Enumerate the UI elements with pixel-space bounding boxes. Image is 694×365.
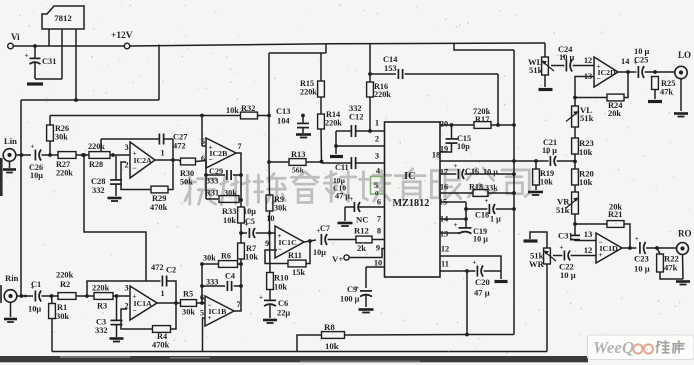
wire pin11: [440, 270, 475, 272]
svg-text:14: 14: [621, 57, 630, 66]
wire IC2D output: [618, 71, 636, 73]
wire C27 left drop: [100, 139, 102, 152]
svg-text:10p: 10p: [457, 142, 470, 151]
wire C20 to ground: [500, 271, 502, 279]
svg-text:3: 3: [375, 152, 379, 161]
wire +12V rail main: [130, 43, 545, 46]
wire R30 to IC2B pin6: [196, 161, 207, 162]
svg-text:R33: R33: [222, 207, 236, 216]
svg-text:47 μ: 47 μ: [335, 192, 350, 201]
wire to IC1D pin13: [575, 239, 596, 242]
svg-text:20: 20: [440, 120, 448, 129]
svg-text:3: 3: [124, 284, 128, 293]
svg-text:333: 333: [206, 177, 218, 186]
svg-text:NC: NC: [356, 215, 368, 225]
resistor R16 220k: [367, 82, 374, 97]
scan artifact bottom band: [0, 356, 588, 362]
svg-text:16: 16: [440, 183, 448, 192]
svg-text:+: +: [635, 235, 639, 243]
op-amp IC1D: [596, 233, 622, 263]
capacitor C7 10u: [320, 234, 322, 245]
svg-text:6: 6: [201, 154, 205, 163]
wire into R30: [179, 160, 181, 162]
svg-text:C14: C14: [383, 55, 398, 64]
svg-text:13: 13: [584, 229, 593, 239]
svg-text:30k: 30k: [224, 189, 237, 198]
wire C31 bottom lead: [34, 63, 36, 79]
ground at C20: [495, 280, 508, 283]
wire IC1A output: [157, 302, 181, 304]
svg-text:12: 12: [584, 245, 593, 255]
svg-text:IC1A: IC1A: [134, 299, 153, 308]
wire C18 to x514: [496, 208, 514, 210]
svg-text:C31: C31: [558, 231, 573, 241]
potentiometer WR 51k: [544, 248, 551, 264]
wire x269 from y53 down: [268, 53, 270, 116]
capacitor C25 10u output coupling: [637, 66, 639, 78]
svg-text:472: 472: [173, 142, 186, 151]
svg-text:10: 10: [266, 214, 274, 223]
svg-text:LO: LO: [678, 50, 691, 60]
svg-text:10μ: 10μ: [313, 248, 326, 257]
capacitor C2 472 feedback: [87, 281, 161, 296]
wire C11 to pin3: [356, 162, 385, 164]
wire C12 left: [336, 130, 351, 132]
svg-text:+: +: [454, 221, 458, 229]
svg-text:R31: R31: [205, 189, 219, 198]
svg-text:+: +: [30, 143, 34, 151]
resistor R7 10k: [238, 243, 245, 259]
wire rail tap x326: [325, 44, 327, 53]
wire Rin signal: [17, 295, 33, 297]
resistor R9 30k bias: [266, 195, 273, 211]
wire ground bus y79: [35, 78, 62, 80]
wire R18 to x514: [488, 192, 514, 194]
wire IC2D pin13: [575, 77, 594, 98]
wire C2 to output node: [167, 281, 176, 303]
svg-text:470k: 470k: [150, 203, 168, 212]
wire C14 to right column: [405, 73, 498, 75]
svg-text:R29: R29: [152, 194, 166, 203]
svg-text:R5: R5: [183, 290, 193, 299]
svg-text:C13: C13: [276, 107, 290, 116]
potentiometer WL 51k: [542, 57, 549, 75]
wire C19 to pin13 wire: [458, 231, 460, 234]
wire C27 to output node: [172, 139, 174, 160]
svg-text:RO: RO: [678, 229, 692, 239]
wire C24 to IC2D pin12: [573, 65, 594, 67]
wire R22 bottom: [660, 272, 683, 279]
resistor R23 10k: [572, 138, 579, 154]
svg-text:10μ: 10μ: [28, 305, 41, 314]
ground under C13: [296, 133, 311, 136]
svg-text:7: 7: [377, 215, 381, 224]
ground under RO: [676, 280, 690, 283]
wire R2 to R3: [76, 295, 94, 297]
wire C27 right: [164, 138, 173, 140]
resistor R10 10k bias: [267, 273, 274, 290]
wire stage link x84: [84, 155, 146, 281]
svg-text:56k: 56k: [292, 166, 305, 175]
capacitor C18 1u: [466, 208, 487, 210]
wire R15 to R14: [320, 97, 322, 114]
svg-text:47k: 47k: [660, 88, 673, 97]
svg-text:472: 472: [151, 263, 164, 272]
svg-text:10 μ: 10 μ: [473, 235, 488, 244]
svg-text:51k: 51k: [556, 205, 570, 215]
wire C15 to pin19: [440, 143, 452, 152]
wire IC1B pin5 to rail: [203, 318, 206, 352]
svg-text:10: 10: [374, 259, 382, 268]
svg-text:10k: 10k: [579, 147, 593, 157]
svg-text:153: 153: [384, 64, 397, 73]
wire C5 to IC1C: [256, 232, 269, 234]
wire 7812 input lead: [48, 29, 50, 46]
svg-text:10μ: 10μ: [243, 207, 256, 216]
resistor R2 220k: [58, 293, 76, 300]
ground WR top: [530, 232, 547, 248]
node y115 line: [50, 115, 240, 117]
ground under WL: [539, 88, 553, 91]
wire R25 to ground: [654, 90, 656, 100]
svg-text:10 μ: 10 μ: [560, 270, 576, 280]
wire V+ to pin9: [349, 249, 384, 258]
svg-text:R17: R17: [475, 115, 489, 124]
svg-text:C25: C25: [634, 56, 648, 65]
wire R14 to R13 node: [320, 129, 323, 163]
svg-text:+: +: [472, 259, 476, 267]
wire into IC1C plus: [270, 232, 276, 234]
wire R17 to x514: [491, 124, 514, 126]
svg-text:Lin: Lin: [4, 136, 17, 146]
svg-text:C12: C12: [349, 113, 363, 122]
svg-text:10 μ: 10 μ: [542, 146, 557, 155]
wire bottom rail: [52, 351, 547, 353]
capacitor C16 10u: [440, 173, 456, 175]
wire IC1D output: [622, 247, 636, 249]
svg-text:R11: R11: [288, 251, 302, 260]
ground under C6: [263, 319, 277, 322]
wire node to R10: [269, 233, 272, 273]
capacitor C31 pin13 node: [574, 224, 576, 235]
wire R7 top lead: [240, 233, 242, 243]
resistor R15 220k: [318, 81, 325, 97]
svg-text:R28: R28: [89, 160, 103, 169]
svg-text:R1: R1: [57, 303, 67, 312]
wire pin12: [440, 256, 501, 271]
wire pin2: [336, 145, 385, 147]
svg-text:30k: 30k: [182, 308, 195, 317]
ground under C3: [110, 337, 124, 340]
svg-text:WeeQ: WeeQ: [593, 338, 634, 357]
ground under R19: [528, 191, 543, 194]
ground under Lin: [3, 168, 16, 171]
svg-text:13: 13: [440, 230, 448, 239]
wire pin20: [440, 124, 474, 126]
wire pin18 bus: [440, 160, 549, 162]
capacitor C6 22u: [269, 290, 271, 300]
svg-text:R3: R3: [97, 302, 107, 311]
svg-text:0: 0: [375, 190, 378, 197]
wire R5 to IC1B: [197, 302, 206, 304]
wire 7812 ground lead: [61, 29, 63, 79]
wire R9 bottom lead: [269, 211, 271, 233]
wire R1 to bottom rail: [51, 319, 53, 352]
svg-text:470k: 470k: [152, 341, 170, 350]
svg-text:22μ: 22μ: [277, 309, 290, 318]
svg-text:+: +: [453, 162, 457, 170]
wire y53 bias line: [269, 52, 326, 54]
ground under Rin: [4, 318, 17, 321]
svg-text:333: 333: [206, 278, 218, 287]
svg-text:10k: 10k: [226, 106, 239, 115]
resistor R22 47k: [657, 254, 664, 272]
op-amp IC1A: [130, 286, 157, 320]
wire R7 bottom lead: [240, 259, 242, 264]
resistor R30 50k: [181, 158, 196, 165]
wire LO to ground: [680, 79, 682, 111]
svg-text:5: 5: [374, 181, 378, 190]
wire R29 to output node: [168, 160, 173, 190]
wire C31 top lead: [34, 46, 36, 58]
svg-text:220k: 220k: [88, 142, 105, 151]
svg-text:IC2D: IC2D: [598, 68, 617, 77]
svg-text:+: +: [349, 195, 353, 203]
svg-text:47 μ: 47 μ: [474, 288, 490, 298]
svg-text:R32: R32: [241, 104, 255, 113]
ground under C28: [108, 197, 122, 200]
wire y50 top right: [454, 43, 514, 50]
svg-text:10k: 10k: [223, 216, 236, 225]
resistor R17 720k: [474, 122, 491, 129]
svg-text:V+: V+: [332, 254, 343, 264]
resistor R13 56k: [269, 161, 289, 163]
svg-text:C11: C11: [335, 163, 349, 172]
wire WR to bottom rail: [546, 264, 548, 352]
capacitor C15 10p: [451, 125, 453, 139]
wire x269 bias column upper: [268, 116, 270, 163]
wire right column x514: [513, 50, 515, 335]
resistor R8 10k: [322, 332, 345, 339]
wire R27 to R28: [76, 154, 89, 156]
wire C3 to ground: [116, 325, 118, 337]
wire R26 top lead: [49, 116, 51, 126]
svg-text:+: +: [484, 197, 488, 205]
svg-text:+: +: [559, 244, 563, 252]
svg-text:2k: 2k: [357, 243, 366, 253]
op-amp IC2D: [594, 57, 618, 87]
svg-text:IC2A: IC2A: [134, 156, 153, 165]
capacitor C14 153: [370, 73, 396, 75]
resistor R31 30k feedback: [206, 198, 218, 200]
svg-text:10k: 10k: [245, 253, 258, 262]
wire R8 to pin11 node: [345, 334, 468, 337]
svg-text:1: 1: [375, 119, 379, 128]
svg-text:7812: 7812: [54, 13, 72, 23]
svg-text:10 μ: 10 μ: [559, 53, 574, 62]
watermark WeeQoo card: [588, 335, 694, 360]
svg-text:10k: 10k: [540, 178, 553, 187]
svg-text:10k: 10k: [579, 177, 593, 187]
svg-text:18: 18: [432, 151, 440, 160]
decorative watermark: [185, 168, 530, 205]
wire C10 left: [345, 206, 354, 208]
svg-text:C27: C27: [173, 133, 187, 142]
wire C26 to R27: [42, 154, 59, 156]
watermark weiku glyphs: [656, 341, 669, 353]
potentiometer VR 51k: [572, 192, 579, 214]
op-amp IC2A: [130, 142, 155, 178]
wire WL feed: [544, 43, 546, 57]
wire pin10: [366, 266, 385, 268]
svg-text:220k: 220k: [56, 271, 74, 280]
svg-text:220k: 220k: [325, 119, 342, 128]
svg-text:MZ1812: MZ1812: [393, 198, 430, 209]
wire +12V drop x159: [158, 45, 160, 101]
svg-text:WR: WR: [529, 259, 545, 269]
wire R4 to output node: [171, 303, 176, 329]
wire C25 to LO: [645, 71, 675, 73]
svg-text:10μ: 10μ: [30, 171, 43, 180]
svg-text:C7: C7: [320, 224, 330, 233]
svg-text:C31: C31: [42, 57, 56, 66]
resistor R1 30k: [49, 304, 56, 319]
svg-text:C1: C1: [31, 280, 41, 289]
wire rail to R16 node: [369, 43, 371, 74]
wire RO down: [682, 255, 685, 280]
svg-text:C5: C5: [245, 217, 255, 226]
wire R26 bottom lead: [49, 141, 51, 155]
wire C16 to x514: [465, 173, 514, 175]
resistor R24 20k feedback: [624, 72, 628, 98]
wire C13 to ground: [302, 128, 304, 133]
resistor R27 220k: [58, 152, 76, 159]
capacitor C27 472 feedback: [101, 138, 160, 140]
wire C22 to IC1D pin12: [571, 255, 596, 257]
resistor R18 33k: [440, 192, 473, 194]
svg-text:30k: 30k: [56, 312, 69, 321]
svg-text:30k: 30k: [274, 204, 287, 213]
resistor R20 10k: [572, 169, 579, 185]
op-amp IC2B: [206, 138, 236, 168]
wire Vi to regulator: [13, 45, 49, 47]
capacitor C24 10u: [551, 65, 564, 67]
wire x466 drop: [465, 202, 467, 219]
capacitor C13 104: [302, 116, 304, 124]
resistor R14 220k: [318, 114, 325, 129]
svg-text:30k: 30k: [55, 133, 68, 142]
svg-text:C23: C23: [634, 254, 649, 264]
svg-text:30k: 30k: [203, 254, 216, 263]
svg-text:1: 1: [161, 289, 165, 298]
wire R3 to IC1A: [113, 295, 130, 297]
capacitor C19 10u: [465, 219, 467, 227]
ground under R25: [648, 100, 662, 103]
wire +12V feed x21 down: [20, 100, 22, 296]
wire VR to node: [574, 214, 576, 224]
wire C6 to ground: [269, 305, 271, 318]
svg-text:R21: R21: [608, 210, 622, 219]
wire C12 to pin1: [356, 130, 385, 132]
ground under LO: [674, 112, 688, 115]
svg-text:+: +: [25, 51, 29, 59]
resistor R4 470k feedback: [121, 309, 152, 329]
ground at pin2 node: [330, 155, 343, 158]
wire R32 to x269: [258, 115, 270, 117]
wire IC2A output: [155, 159, 179, 161]
svg-text:9: 9: [376, 244, 380, 253]
svg-text:11: 11: [441, 260, 449, 269]
IC MZ1812 body: [385, 122, 441, 277]
svg-text:51k: 51k: [529, 65, 543, 75]
svg-text:220k: 220k: [92, 284, 110, 293]
resistor R29 470k feedback: [121, 162, 151, 190]
potentiometer VL 51k: [574, 98, 576, 107]
wire R11 to output: [306, 241, 310, 264]
svg-text:104: 104: [277, 117, 290, 126]
svg-text:8: 8: [377, 227, 381, 236]
regulator U-7812 body: [42, 6, 84, 29]
svg-text:1 μ: 1 μ: [490, 215, 501, 224]
resistor R5 30k: [181, 300, 197, 307]
svg-text:R18: R18: [469, 183, 483, 192]
svg-text:Rin: Rin: [5, 273, 19, 283]
wire C7 to R12: [328, 239, 356, 241]
wire C21 to R23 node: [557, 160, 575, 162]
svg-text:C9: C9: [347, 285, 357, 294]
op-amp IC1B: [205, 296, 234, 326]
resistor R26 30k: [47, 125, 54, 141]
svg-text:C29: C29: [209, 167, 223, 176]
capacitor C1 10u coupling: [34, 291, 36, 302]
wire R15 top lead: [320, 53, 322, 81]
svg-text:+: +: [259, 293, 263, 301]
wire R13 right: [306, 161, 322, 163]
svg-text:10 μ: 10 μ: [634, 264, 650, 274]
svg-text:1: 1: [161, 149, 165, 158]
wire R8 branch: [297, 335, 321, 352]
resistor R6 30k: [202, 264, 218, 303]
wire R1 top lead: [51, 296, 54, 304]
svg-text:C4: C4: [225, 272, 235, 281]
wire Rin to ground: [10, 302, 12, 317]
wire to x514 bottom: [467, 334, 514, 336]
svg-text:51k: 51k: [580, 113, 594, 123]
svg-text:IC2B: IC2B: [210, 149, 228, 158]
svg-text:33k: 33k: [485, 184, 498, 193]
svg-text:9: 9: [265, 239, 269, 248]
wire R16 to pin1 node: [369, 97, 371, 131]
wire IC1B output up: [234, 264, 241, 311]
svg-text:20k: 20k: [608, 109, 621, 118]
svg-text:C18: C18: [475, 211, 489, 220]
svg-text:5: 5: [200, 309, 204, 318]
wire R13 node to C11: [322, 162, 352, 164]
svg-text:R10: R10: [274, 274, 288, 283]
svg-text:R2: R2: [60, 280, 70, 289]
capacitor C21 10u: [549, 156, 551, 166]
svg-text:332: 332: [95, 326, 108, 335]
svg-text:R12: R12: [354, 226, 369, 236]
svg-text:7: 7: [238, 142, 242, 151]
capacitor C29 333 feedback: [205, 161, 207, 200]
svg-text:+12V: +12V: [111, 31, 133, 41]
wire R9 top lead: [268, 162, 271, 195]
svg-text:R13: R13: [291, 150, 305, 159]
svg-text:10k: 10k: [325, 341, 339, 351]
svg-text:12: 12: [441, 245, 449, 254]
resistor R28 220k: [89, 152, 110, 159]
